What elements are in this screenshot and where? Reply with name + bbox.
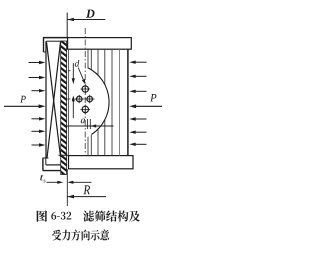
horizontal dimension line at y=126 with left arrow xyxy=(67,124,114,127)
small dash mark left of balloon top xyxy=(64,70,71,72)
dimension D line with left arrow xyxy=(67,18,105,22)
dimension a vertical arrows xyxy=(72,63,75,118)
label P (right) xyxy=(150,94,156,101)
label R xyxy=(83,185,90,194)
R dimension extension line xyxy=(66,169,68,206)
detail balloon arc (big circle bulging right) xyxy=(88,68,109,135)
left top flange (L angle) xyxy=(43,38,68,52)
dimension D extension line xyxy=(66,13,68,38)
bottom wall-thickness dimension t xyxy=(47,181,92,184)
label a xyxy=(81,119,85,124)
bottom left bracket (L angle) xyxy=(43,155,69,170)
label D xyxy=(86,10,95,18)
left P force arrows xyxy=(4,61,45,147)
screen hole left xyxy=(75,95,83,103)
screen diagonal (top-left to bottom-right) xyxy=(47,42,61,157)
hatched wall section strip xyxy=(61,41,67,175)
hole-pitch extension lines below cluster xyxy=(88,119,91,129)
screen diagonal (top-right to bottom-left) xyxy=(47,42,61,158)
screen hole top (circle with crosshair) xyxy=(81,84,91,94)
label t xyxy=(40,175,43,181)
screen basket left wall (vertical) xyxy=(45,41,47,158)
horizontal centerline through middle holes (dash-dot) xyxy=(67,98,97,100)
label t-sub xyxy=(43,180,45,183)
centerline vertical (dash-dot) xyxy=(84,28,86,153)
cylinder right edge xyxy=(127,49,129,155)
label P (left) xyxy=(20,96,26,103)
screen hole bottom xyxy=(81,105,91,115)
R dimension line with left arrow xyxy=(68,195,107,199)
caption line 2: 受力方向示意 xyxy=(52,230,109,241)
top cap of cylinder xyxy=(68,38,132,50)
right P force arrows xyxy=(129,61,162,147)
caption line 1: 图 6-32 滤筛结构及 xyxy=(37,210,47,221)
bottom cap of cylinder xyxy=(69,156,134,169)
screen hole right xyxy=(86,95,94,103)
cylinder left edge xyxy=(67,49,69,155)
label d xyxy=(75,60,80,67)
